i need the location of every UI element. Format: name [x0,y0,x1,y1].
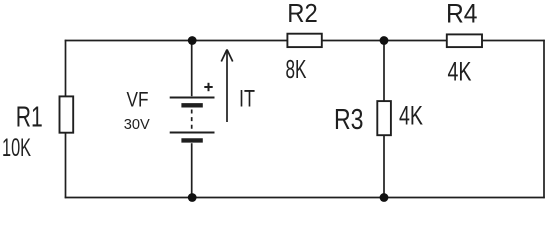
wire bottom [65,197,545,199]
node junction top battery [188,36,197,45]
wire right [543,40,545,199]
wire left [65,40,67,199]
wire battery branch [191,41,193,198]
svg-text:IT: IT [239,85,255,112]
svg-text:R1: R1 [16,102,43,134]
battery VF plate short top [181,103,202,107]
battery VF plate long top [170,97,215,99]
svg-text:4K: 4K [399,101,423,131]
resistor R2 [287,34,321,47]
battery VF plate long bottom [170,132,215,134]
battery VF plate short bottom [181,138,202,142]
svg-text:30V: 30V [124,117,150,133]
battery VF: top gap cover [183,96,200,143]
wire R3 branch [383,41,385,198]
node junction top R3 [380,36,389,45]
resistor R4 [447,34,482,47]
resistor R3 [377,101,391,135]
svg-text:10K: 10K [2,134,31,162]
svg-text:4K: 4K [448,57,472,87]
node junction bottom R3 [380,193,389,202]
svg-text:8K: 8K [286,54,307,84]
current arrow IT [221,50,232,123]
node junction bottom battery [188,193,197,202]
battery VF plus sign [204,83,212,91]
svg-text:R2: R2 [287,0,318,28]
svg-text:VF: VF [127,88,149,111]
svg-text:R4: R4 [446,0,478,29]
svg-text:R3: R3 [334,104,364,136]
battery VF dashed link [191,110,193,130]
resistor R1 [60,96,74,132]
wire top [65,40,545,42]
